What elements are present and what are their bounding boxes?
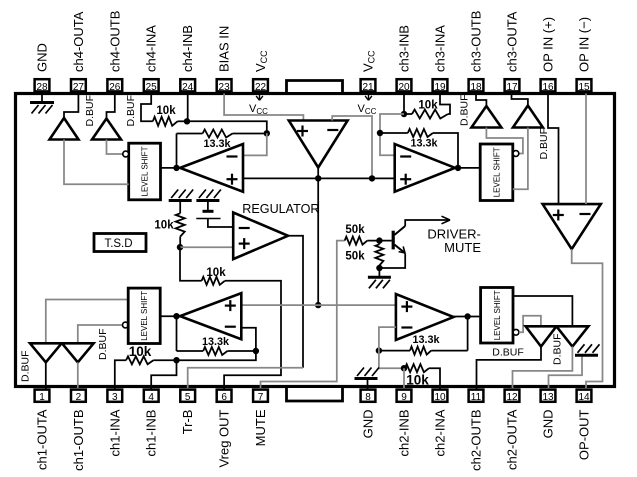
svg-text:ch2-INA: ch2-INA: [433, 409, 448, 456]
svg-text:11: 11: [471, 392, 482, 403]
svg-text:10k: 10k: [406, 372, 429, 387]
svg-text:10k: 10k: [129, 344, 152, 359]
svg-text:8: 8: [365, 392, 371, 403]
svg-text:D.BUF: D.BUF: [84, 95, 96, 127]
svg-text:13.3k: 13.3k: [412, 334, 440, 346]
svg-text:LEVEL SHIFT: LEVEL SHIFT: [493, 147, 502, 197]
svg-text:T.S.D: T.S.D: [104, 238, 132, 250]
svg-text:LEVEL SHIFT: LEVEL SHIFT: [493, 290, 502, 340]
svg-text:13: 13: [542, 392, 554, 403]
svg-text:6: 6: [221, 392, 227, 403]
svg-text:MUTE: MUTE: [253, 409, 268, 446]
svg-text:ch1-OUTA: ch1-OUTA: [35, 409, 50, 470]
svg-text:Vreg OUT: Vreg OUT: [217, 409, 232, 467]
svg-text:OP IN (+): OP IN (+): [541, 17, 556, 72]
svg-text:50k: 50k: [345, 250, 365, 262]
svg-text:ch4-OUTA: ch4-OUTA: [71, 11, 86, 72]
svg-text:4: 4: [148, 392, 154, 403]
svg-text:10k: 10k: [418, 99, 438, 111]
svg-text:23: 23: [219, 82, 231, 93]
svg-text:ch2-OUTA: ch2-OUTA: [505, 409, 520, 470]
svg-text:D.BUF: D.BUF: [20, 351, 32, 383]
svg-text:28: 28: [36, 82, 48, 93]
svg-text:GND: GND: [541, 410, 556, 439]
svg-text:9: 9: [401, 392, 407, 403]
svg-text:26: 26: [109, 82, 121, 93]
svg-text:3: 3: [112, 392, 118, 403]
svg-text:D.BUF: D.BUF: [492, 347, 524, 359]
svg-text:ch1-INB: ch1-INB: [144, 410, 159, 457]
svg-text:7: 7: [258, 392, 264, 403]
svg-text:GND: GND: [35, 43, 50, 72]
svg-text:ch3-INA: ch3-INA: [433, 25, 448, 72]
svg-text:ch3-OUTA: ch3-OUTA: [505, 11, 520, 72]
svg-text:ch4-OUTB: ch4-OUTB: [107, 11, 122, 72]
svg-text:5: 5: [185, 392, 191, 403]
svg-text:D.BUF: D.BUF: [538, 128, 550, 160]
svg-text:22: 22: [255, 82, 267, 93]
svg-text:14: 14: [578, 392, 590, 403]
svg-text:10k: 10k: [206, 267, 226, 279]
svg-text:13.3k: 13.3k: [410, 137, 438, 149]
svg-text:1: 1: [39, 392, 45, 403]
svg-text:D.BUF: D.BUF: [97, 329, 109, 361]
svg-text:50k: 50k: [345, 224, 365, 236]
svg-text:BIAS IN: BIAS IN: [217, 26, 232, 72]
svg-text:10: 10: [434, 392, 446, 403]
svg-text:LEVEL SHIFT: LEVEL SHIFT: [140, 291, 149, 341]
svg-text:16: 16: [542, 82, 554, 93]
svg-text:D.BUF: D.BUF: [552, 334, 564, 366]
svg-text:17: 17: [506, 82, 518, 93]
svg-text:LEVEL SHIFT: LEVEL SHIFT: [141, 146, 150, 196]
svg-text:REGULATOR: REGULATOR: [242, 202, 319, 216]
svg-text:21: 21: [362, 82, 374, 93]
svg-text:ch3-OUTB: ch3-OUTB: [469, 11, 484, 72]
svg-text:ch1-OUTB: ch1-OUTB: [71, 410, 86, 471]
svg-text:13.3k: 13.3k: [203, 138, 231, 150]
svg-text:12: 12: [506, 392, 518, 403]
svg-text:10k: 10k: [156, 105, 176, 117]
svg-text:ch2-OUTB: ch2-OUTB: [469, 410, 484, 471]
svg-text:10k: 10k: [154, 220, 174, 232]
svg-text:20: 20: [398, 82, 410, 93]
svg-text:GND: GND: [361, 410, 376, 439]
svg-text:D.BUF: D.BUF: [459, 95, 471, 127]
svg-text:25: 25: [146, 82, 158, 93]
svg-text:18: 18: [470, 82, 482, 93]
svg-text:OP IN (−): OP IN (−): [577, 17, 592, 72]
svg-text:OP-OUT: OP-OUT: [577, 409, 592, 460]
svg-text:ch4-INA: ch4-INA: [144, 25, 159, 72]
svg-text:ch4-INB: ch4-INB: [180, 25, 195, 72]
svg-text:ch2-INB: ch2-INB: [397, 410, 412, 457]
svg-text:ch3-INB: ch3-INB: [397, 25, 412, 72]
svg-text:ch1-INA: ch1-INA: [107, 409, 122, 456]
svg-text:24: 24: [182, 82, 194, 93]
svg-text:13.3k: 13.3k: [202, 336, 230, 348]
svg-text:MUTE: MUTE: [444, 240, 481, 255]
svg-text:19: 19: [434, 82, 446, 93]
svg-text:15: 15: [578, 82, 590, 93]
svg-text:2: 2: [76, 392, 82, 403]
svg-text:D.BUF: D.BUF: [125, 95, 137, 127]
svg-text:27: 27: [73, 82, 85, 93]
svg-text:Tr-B: Tr-B: [180, 410, 195, 435]
